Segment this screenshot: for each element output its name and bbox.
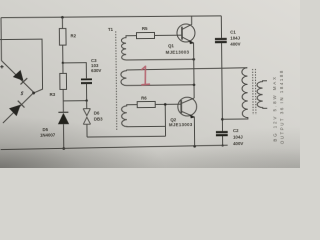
output transformer T2 primary (with bottom lead wire to cap node) [222, 68, 248, 119]
left vertical wire from bridge + to top rail [0, 18, 2, 61]
transformer T1 core [116, 31, 117, 130]
wire C1 bottom to C2 top [221, 43, 224, 131]
bridge diode D1 [13, 70, 28, 85]
~ label of bridge [21, 92, 24, 95]
T2 secondary [257, 81, 267, 109]
capacitor C3 [81, 78, 92, 84]
T2 core [252, 69, 254, 115]
wire node to D5 [62, 101, 64, 112]
wire R3 to lower node [62, 89, 64, 100]
transistor Q1 [177, 16, 195, 60]
wire C3 bottom [85, 84, 87, 101]
red pen mark [142, 66, 150, 84]
wire node to C3 top [63, 63, 87, 79]
wire R6 to Q2 base [155, 103, 181, 105]
T1 winding W1 [121, 35, 193, 60]
top supply rail wire [1, 15, 221, 18]
diode D5 [58, 111, 68, 113]
resistor R6 [137, 101, 155, 107]
T1 winding W2 top lead wire to output [126, 68, 247, 70]
resistor R5 [136, 32, 154, 38]
node dot D5/rail [62, 147, 65, 150]
transistor Q2 [178, 97, 197, 147]
node dot primary bottom junction [221, 118, 224, 121]
bottom rail wire [1, 145, 228, 149]
plus label of bridge [0, 65, 3, 68]
node dot C3/D6 [85, 99, 87, 101]
mid vertical wire Q1 emitter to Q2 collector [193, 59, 195, 98]
capacitor C1 [215, 38, 227, 43]
wire rail to R2 [61, 17, 63, 28]
node dot Q2 emitter / rail [193, 145, 196, 148]
AC input wire to bridge ~ node [0, 39, 43, 93]
wire C2 to rail [222, 136, 224, 145]
node dot rail/R2 [61, 16, 64, 19]
node dot R2/C3 [62, 62, 64, 64]
diac D6 [83, 109, 90, 125]
paper background [0, 0, 300, 168]
wire D6 down [86, 124, 88, 137]
bridge diode D1 line [1, 60, 33, 92]
T1 winding W2 [121, 69, 194, 85]
bridge diode D2 [9, 100, 25, 116]
T1 winding W3 [122, 104, 166, 126]
resistor R3 [60, 73, 67, 89]
wire lower node horizontal [63, 100, 86, 102]
wire R2 to node [62, 45, 64, 63]
photo corner shadows [0, 0, 300, 168]
node dot W1 bottom / emitter line [192, 58, 195, 61]
wire D6 to diac riser [87, 135, 165, 138]
node dot bridge ~ vertex [32, 92, 35, 95]
node dot C2/rail [222, 144, 224, 146]
node dot base/diac riser [164, 103, 167, 106]
node dot W2 bottom / mid vertical [193, 84, 196, 87]
riser wire to Q2 base node [164, 104, 166, 136]
resistor R2 [59, 28, 66, 45]
capacitor C2 [216, 131, 228, 136]
wire node to diac D6 [86, 101, 88, 109]
capacitor C1 wire from rail [220, 16, 222, 38]
wire R5 to Q1 base [154, 34, 181, 36]
wire node to R3 [62, 63, 64, 73]
bridge diode D2 line [3, 93, 34, 123]
wire D5 to bottom rail [63, 124, 65, 149]
